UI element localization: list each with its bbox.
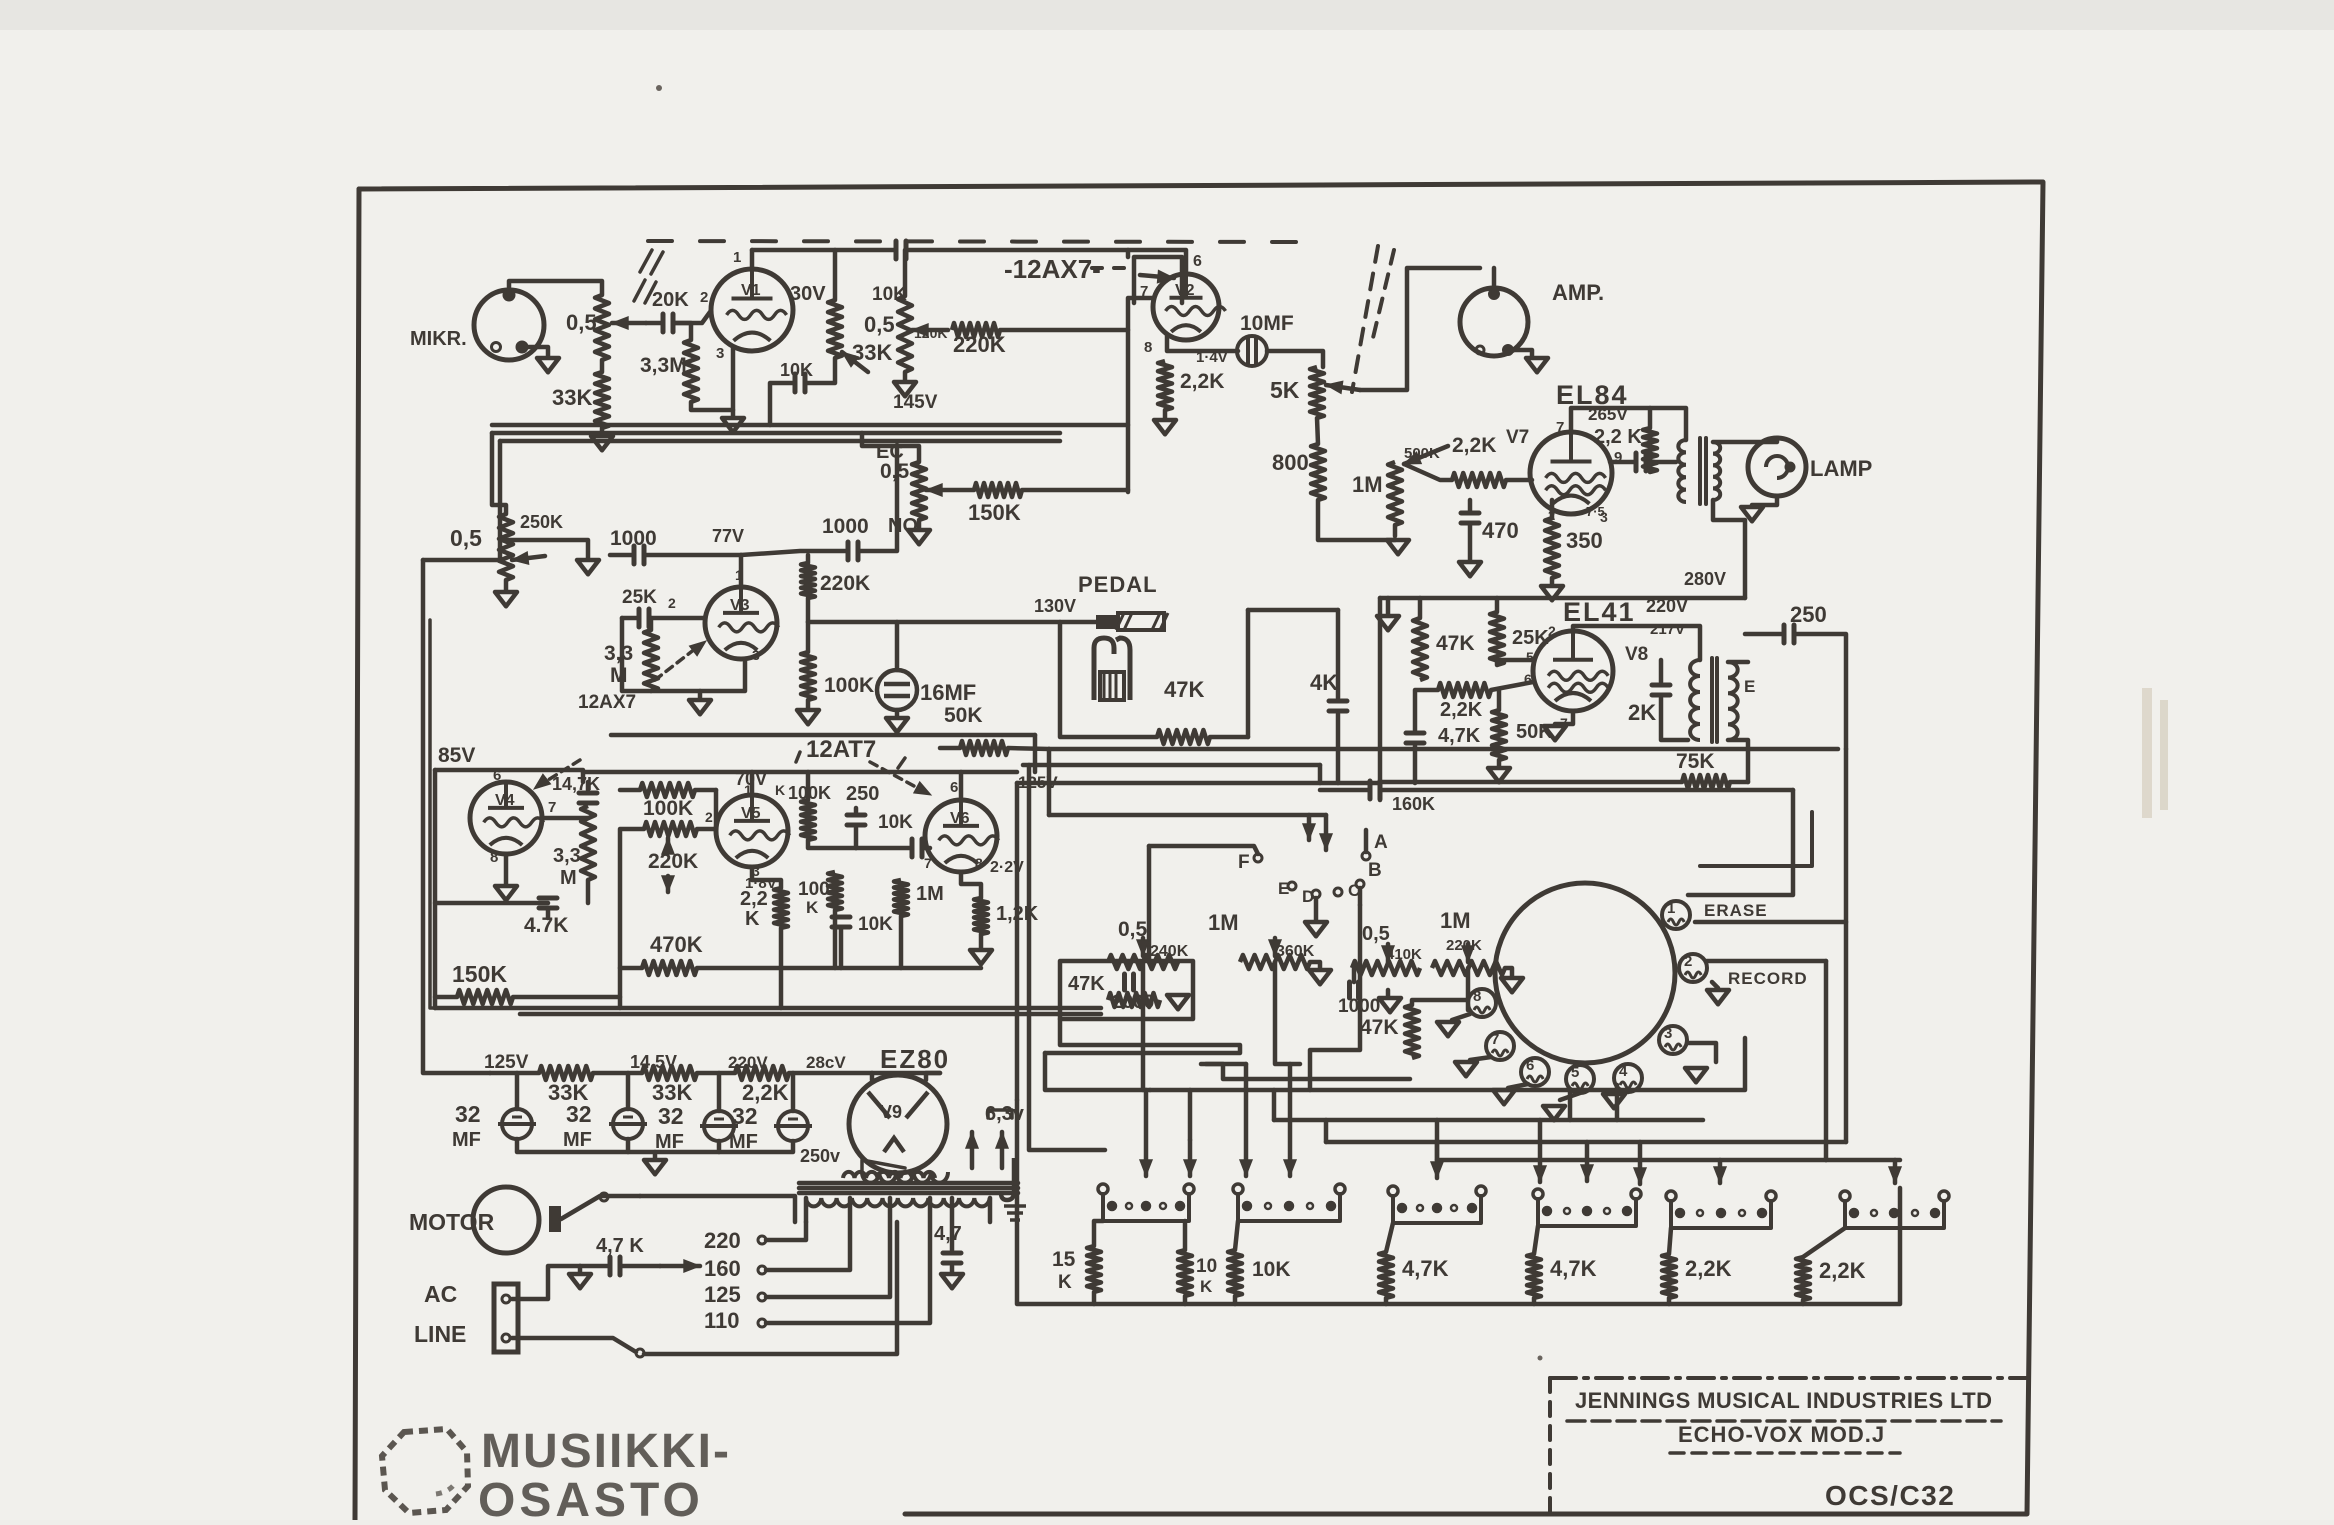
svg-text:K: K <box>1200 1277 1213 1296</box>
svg-text:16MF: 16MF <box>920 680 976 705</box>
svg-text:160K: 160K <box>1392 794 1435 814</box>
svg-text:50K: 50K <box>944 704 983 727</box>
svg-text:12AX7: 12AX7 <box>578 692 636 713</box>
wire: component bottoms to bus <box>779 928 784 1008</box>
wire: 125V resistor row <box>423 560 490 1073</box>
wire: bank bottoms bus <box>1094 1188 1900 1304</box>
ground below V1 <box>722 418 744 432</box>
wire: V5 cathode to 2.2K <box>752 867 781 888</box>
wire: 12AT7 upper bus <box>611 733 1035 738</box>
wire: matrix row3 <box>1274 1118 1703 1123</box>
resistor 47K EL41 <box>1413 618 1427 680</box>
wire: 100K ends <box>620 788 640 793</box>
wire: V1 cathode <box>731 348 736 416</box>
wire: 150K to ground bus <box>513 997 620 1008</box>
ground below V4 <box>495 886 517 900</box>
svg-text:V1: V1 <box>741 282 761 299</box>
svg-text:EL41: EL41 <box>1563 597 1636 627</box>
switch bank S2 <box>1233 1184 1243 1194</box>
wire: record riser down <box>1824 961 1829 1160</box>
ground below 250K pot <box>504 580 509 590</box>
switch bank S4 <box>1533 1189 1543 1199</box>
wire: 3.3M top to grid <box>650 618 651 630</box>
svg-text:85V: 85V <box>438 744 475 767</box>
svg-text:220V: 220V <box>1646 596 1688 616</box>
resistor 33K psu b <box>642 1066 697 1080</box>
transformer T3 primary bumps <box>806 1198 990 1206</box>
svg-text:1000: 1000 <box>822 515 869 538</box>
svg-text:1M: 1M <box>1208 910 1239 935</box>
wire: 150K right to V2 cathode branch <box>1022 488 1128 493</box>
svg-text:3,3M: 3,3M <box>640 354 687 377</box>
svg-text:MUSIIKKI-: MUSIIKKI- <box>481 1425 731 1478</box>
resistor 2.2K psu <box>735 1066 789 1080</box>
svg-text:25K: 25K <box>622 587 657 608</box>
potentiometer 5K <box>1310 367 1324 418</box>
wire: erase return upper <box>1700 812 1812 866</box>
resistor 2.2K V8 <box>1438 683 1491 697</box>
wire: V3 cathode to ground <box>651 659 745 691</box>
svg-text:MIKR.: MIKR. <box>410 328 467 350</box>
wire: 33K top to rail <box>833 250 838 300</box>
pedal lamp hooks <box>1094 638 1114 700</box>
head 2 record <box>1679 954 1707 982</box>
head 4 <box>1614 1064 1642 1092</box>
resistor 3.3M V1 grid leak <box>684 340 698 402</box>
ground below pot2 <box>903 372 908 380</box>
svg-text:6: 6 <box>950 779 958 796</box>
svg-text:32: 32 <box>566 1101 592 1127</box>
ground below 50K <box>1497 760 1502 766</box>
wire: 47K top <box>1418 598 1423 618</box>
arrows on 220K pot <box>666 838 671 850</box>
svg-text:150K: 150K <box>968 500 1021 525</box>
svg-text:220K: 220K <box>953 332 1006 357</box>
switch lever motor <box>561 1196 640 1219</box>
resistor 2.2K V5 cathode <box>774 888 788 928</box>
svg-text:10K: 10K <box>858 914 893 935</box>
svg-text:M: M <box>610 664 628 687</box>
svg-text:K: K <box>806 898 819 917</box>
wire: V2 cathode to 10MF <box>1167 335 1238 351</box>
dashed 12AX7 envelope line <box>648 241 1302 242</box>
svg-text:E: E <box>1744 677 1755 696</box>
svg-text:2,2K: 2,2K <box>742 1080 789 1105</box>
wire: V8 grid <box>1497 660 1533 665</box>
svg-text:8: 8 <box>1144 339 1152 356</box>
svg-text:3,3: 3,3 <box>553 845 581 867</box>
resistor 4.7K a <box>1379 1252 1393 1298</box>
svg-text:110: 110 <box>704 1308 740 1333</box>
resistor 3.3M V4 <box>581 806 595 880</box>
head 7 <box>1486 1032 1514 1060</box>
ground top left EL41 <box>1386 598 1391 614</box>
svg-text:4,7: 4,7 <box>934 1223 962 1245</box>
resistor 47K echo <box>1405 1005 1419 1058</box>
transformer T1 output primary coil <box>1678 440 1686 502</box>
wire: V6 top to rail <box>959 772 964 800</box>
wire: F contact feed <box>1149 846 1258 854</box>
pedal jack plug <box>1096 615 1118 629</box>
wire: mikr pins to ground <box>526 347 548 356</box>
svg-text:PEDAL: PEDAL <box>1078 572 1158 597</box>
svg-text:33K: 33K <box>652 1080 692 1105</box>
svg-text:33K: 33K <box>552 385 592 410</box>
svg-text:1·4V: 1·4V <box>1196 349 1228 366</box>
wire: 5K to 800 <box>1317 418 1318 444</box>
wire: 47K to pedal box right <box>1210 735 1248 740</box>
svg-text:10MF: 10MF <box>1240 312 1294 335</box>
wire: bank tops to resistors <box>1094 1221 1103 1246</box>
wire: 3.3M to grid <box>674 323 691 340</box>
arrow into D <box>1307 815 1312 840</box>
arrow down to pedal switch A <box>1324 815 1329 850</box>
svg-text:100K: 100K <box>643 797 693 820</box>
resistor 75K <box>1682 775 1730 789</box>
wire: bus risers right <box>1844 749 1849 1142</box>
wire: box to bus <box>1045 1019 1240 1053</box>
wire: matrix row1 <box>1045 1053 1150 1090</box>
transformer T3 power core <box>799 1181 1018 1186</box>
wire: AC to transformer right <box>644 1222 897 1354</box>
svg-text:AMP.: AMP. <box>1552 280 1604 305</box>
wire: matrix verticals <box>1188 1090 1193 1140</box>
wire: erase head upper lead <box>1688 790 1793 895</box>
svg-text:2,2 K: 2,2 K <box>1594 426 1642 448</box>
wire: V4 pin7 to 3.3M <box>542 816 588 821</box>
ground below 32MF row <box>653 1152 658 1158</box>
svg-text:6: 6 <box>1193 253 1202 270</box>
svg-text:100: 100 <box>798 879 830 900</box>
potentiometer 1M feedback <box>1388 462 1402 525</box>
transformer T2 secondary <box>1728 662 1738 740</box>
capacitor 4.7K <box>435 901 548 906</box>
svg-text:33K: 33K <box>852 340 892 365</box>
wire: 220K wiper rail <box>620 829 644 997</box>
capacitor 16MF <box>877 670 917 710</box>
svg-text:MOTOR: MOTOR <box>409 1209 495 1235</box>
wire: 50K to L1 <box>940 746 960 751</box>
svg-text:M: M <box>560 867 577 889</box>
wire: mikr top to 0.5 pot <box>509 281 602 295</box>
svg-text:6: 6 <box>493 767 501 784</box>
svg-text:47K: 47K <box>1436 632 1475 655</box>
svg-text:2K: 2K <box>1628 700 1656 725</box>
svg-text:145V: 145V <box>893 392 938 413</box>
svg-text:V6: V6 <box>950 810 970 827</box>
wiper arrow 1M pot <box>1404 446 1448 464</box>
wiper arrow into 0.5 pot <box>612 321 646 326</box>
capacitor 10K bypass <box>832 917 850 927</box>
svg-text:2: 2 <box>668 595 676 611</box>
svg-text:LAMP: LAMP <box>1810 456 1872 481</box>
connector MOTOR <box>473 1187 539 1253</box>
wire: erase head lower lead <box>1695 920 1846 925</box>
svg-text:MF: MF <box>729 1131 758 1153</box>
arrow to 160 tap <box>660 1264 700 1269</box>
ground below 33K <box>600 428 605 434</box>
resistor 10K a <box>1178 1250 1192 1296</box>
svg-text:A: A <box>1374 832 1388 853</box>
wire: record head <box>1707 959 1826 964</box>
tube V7 EL84 <box>1530 432 1612 514</box>
wire: long bus L3 <box>1017 781 1380 786</box>
wire: V1 plate to top line <box>750 250 755 269</box>
wire: V6 cathode <box>961 872 981 898</box>
wire: AC top pin <box>512 1266 580 1299</box>
svg-text:10K: 10K <box>780 360 813 380</box>
wire: cap to V1 grid <box>674 312 710 323</box>
ground left of 1000 cap <box>577 560 599 574</box>
capacitor 32MF 1 <box>515 1073 520 1109</box>
wire: pedal feed riser <box>1248 608 1338 613</box>
svg-text:F: F <box>1238 852 1250 873</box>
wire: EL41 box left <box>1378 598 1383 800</box>
wire: V8 plate top <box>1573 626 1700 660</box>
wire: V7 cathode <box>1550 500 1555 518</box>
svg-text:2: 2 <box>1684 953 1692 970</box>
wire: screen to cap <box>1610 460 1634 465</box>
wiper arrow into EC pot <box>926 488 974 493</box>
ground left of head8 <box>1452 1014 1470 1020</box>
svg-text:4,7K: 4,7K <box>1438 725 1481 747</box>
wire: amp riser <box>1360 268 1480 390</box>
svg-text:10: 10 <box>1196 1256 1217 1277</box>
svg-text:5: 5 <box>1571 1064 1579 1081</box>
resistor 470K <box>642 961 697 975</box>
svg-text:4,7K: 4,7K <box>1550 1256 1597 1281</box>
wire: LAMP bottom to ground <box>1752 496 1777 505</box>
wire: plate rail to V2 callout <box>907 250 1128 257</box>
head 5 <box>1566 1065 1594 1093</box>
wire: 2.2K bottom to transformer <box>1648 462 1653 472</box>
ground below 4.7K motor <box>578 1266 583 1272</box>
svg-text:77V: 77V <box>712 526 744 546</box>
ground below 2.2K <box>1163 410 1168 418</box>
wire: V3 grid loop down <box>622 618 651 691</box>
wire: 25K top <box>1495 598 1500 612</box>
wire: 220K to V2 grid vertical <box>1000 328 1128 333</box>
svg-text:3: 3 <box>716 345 724 362</box>
svg-text:3: 3 <box>752 647 760 663</box>
wire: matrix row5 <box>1437 1158 1900 1163</box>
capacitor 1000 first <box>610 553 632 558</box>
wiper arrow 5K <box>1326 385 1360 390</box>
svg-text:2,2K: 2,2K <box>1685 1256 1732 1281</box>
capacitor 160K on bus <box>1320 788 1368 793</box>
wire: V2 plate top <box>1128 250 1186 274</box>
wire: 220V rail to EL41 box <box>1380 596 1745 601</box>
wire: 1M to 2.2K grid resistor <box>1404 464 1452 480</box>
resistor 100K <box>801 652 815 700</box>
speck marks <box>656 85 662 91</box>
resistor 1M V6 grid <box>894 880 908 916</box>
svg-text:7: 7 <box>1491 1031 1499 1048</box>
resistor 100k V5 plate <box>801 800 815 840</box>
transformer T3 secondary top <box>843 1172 935 1178</box>
svg-text:0,5: 0,5 <box>864 312 895 337</box>
resistor 150K bottom <box>435 995 457 1000</box>
svg-text:350: 350 <box>1566 528 1603 553</box>
wire: bus left verticals down <box>1047 749 1052 815</box>
svg-text:470K: 470K <box>650 932 703 957</box>
svg-text:100K: 100K <box>824 674 874 697</box>
svg-text:32: 32 <box>658 1103 684 1129</box>
svg-text:0,5: 0,5 <box>1362 923 1390 945</box>
capacitor 2000 <box>1125 974 1134 990</box>
transformer T2 core <box>1710 658 1714 742</box>
tube V9 EZ80 <box>849 1075 947 1173</box>
dashed arrow 12AT7 to V6 <box>870 762 925 792</box>
dashed arrow 12AX7 to V3 <box>655 645 700 680</box>
wire: B down <box>1358 888 1363 905</box>
capacitor 4.7K <box>1415 690 1438 730</box>
ground below AMP <box>1526 358 1548 372</box>
wire: EC pot top <box>862 433 919 462</box>
wire: matrix row 1079 <box>1206 1064 1410 1079</box>
svg-text:1M: 1M <box>916 883 944 905</box>
resistor 220K V3 plate <box>801 563 815 598</box>
svg-text:217V: 217V <box>1650 621 1685 638</box>
tube V4 12AT7a <box>470 782 542 854</box>
wire: pot2 top to rail <box>903 250 908 296</box>
heater hook symbol <box>1001 1158 1014 1200</box>
ground below 410K <box>1386 990 1391 996</box>
wire: 100k bottom junction <box>808 840 856 848</box>
heater arrows up <box>970 1132 975 1168</box>
svg-text:K: K <box>775 782 785 798</box>
svg-text:ERASE: ERASE <box>1704 901 1768 920</box>
capacitor 10MF <box>1237 336 1267 366</box>
svg-text:2000: 2000 <box>1112 992 1154 1013</box>
svg-text:1M: 1M <box>1352 472 1383 497</box>
wire: V3 top pin <box>739 555 744 588</box>
resistor 33K below pot <box>595 372 609 428</box>
wire: V4 cathode ground <box>504 854 509 884</box>
svg-text:V2: V2 <box>1175 282 1195 299</box>
svg-text:MF: MF <box>563 1129 592 1151</box>
svg-text:8: 8 <box>490 849 498 866</box>
svg-text:220: 220 <box>704 1228 741 1253</box>
svg-text:V7: V7 <box>1506 427 1529 448</box>
svg-text:2: 2 <box>700 289 708 306</box>
svg-text:V3: V3 <box>730 597 750 614</box>
wire: matrix extra rows <box>1201 1062 1246 1067</box>
wire: V1 plate top rail with cap <box>752 248 895 253</box>
tube V6 12AT7 second half <box>925 800 997 872</box>
svg-text:15: 15 <box>1052 1248 1076 1271</box>
resistor 3.3M V3 <box>644 630 658 691</box>
svg-text:360K: 360K <box>1276 943 1315 960</box>
wire: 50K top <box>1497 690 1502 710</box>
svg-text:7·5: 7·5 <box>1586 504 1605 519</box>
resistor 2.2K a <box>1662 1254 1676 1298</box>
ground below 220K <box>1505 968 1512 976</box>
wire: D to ground <box>1314 898 1319 920</box>
wire: 3.3M bottom rail <box>586 880 591 903</box>
wire: long bus L2 <box>1023 763 1320 768</box>
svg-text:4K: 4K <box>1310 670 1338 695</box>
svg-text:MF: MF <box>452 1129 481 1151</box>
wire: primary ends <box>804 1198 809 1222</box>
wire: head4 <box>1616 1090 1628 1095</box>
wire: bus lines 145V area <box>492 423 1128 428</box>
V9 heater coil <box>862 1172 948 1183</box>
svg-text:0,5: 0,5 <box>450 525 482 551</box>
svg-text:4: 4 <box>1619 1063 1628 1080</box>
wire: 32MF bottoms <box>517 1139 793 1152</box>
wire: 250K pot top <box>492 433 506 514</box>
connector LAMP <box>1748 438 1806 496</box>
ground below 4.7 <box>941 1274 963 1288</box>
wire: head6 <box>1508 1084 1528 1088</box>
switch bank S6 <box>1840 1191 1850 1201</box>
svg-text:AC: AC <box>424 1281 457 1307</box>
svg-text:V8: V8 <box>1625 644 1648 665</box>
capacitor 32MF 2 <box>626 1073 631 1109</box>
head 8 <box>1468 989 1496 1017</box>
wire: left border <box>355 189 359 1520</box>
switch bank S5 <box>1666 1191 1676 1201</box>
dash marks on envelope <box>640 250 652 272</box>
capacitor 10K feedback <box>806 358 835 383</box>
transformer T1 secondary coil <box>1713 442 1720 500</box>
svg-text:2,2K: 2,2K <box>1440 699 1483 721</box>
svg-text:4,7 K: 4,7 K <box>596 1235 644 1257</box>
svg-text:K: K <box>1058 1272 1072 1293</box>
resistor 47K pedal <box>1157 730 1210 744</box>
capacitor 32MF 3 <box>717 1073 722 1111</box>
head 1 erase <box>1662 901 1690 929</box>
potentiometer 0.5 (mic level) <box>595 295 609 360</box>
dashed crease lines <box>1352 246 1378 392</box>
svg-text:6,3v: 6,3v <box>985 1103 1025 1125</box>
svg-text:125V: 125V <box>484 1052 529 1073</box>
box 47K 2000 network <box>1060 961 1193 1019</box>
wire: pot junction <box>600 360 605 372</box>
resistor 2.2K screen <box>1643 428 1657 472</box>
svg-text:12AT7: 12AT7 <box>806 736 876 763</box>
wire: 10MF to 5K pot <box>1267 351 1323 367</box>
wire: pots to matrix <box>1141 962 1146 1090</box>
svg-text:1M: 1M <box>1440 908 1471 933</box>
arrows into banks <box>1144 1090 1149 1176</box>
svg-text:32: 32 <box>455 1101 481 1127</box>
resistor 100K mid <box>828 872 842 910</box>
connector AC LINE plug <box>494 1284 518 1352</box>
transformer T2 echo primary <box>1690 660 1700 740</box>
connector MIKR <box>474 290 544 360</box>
ground below 100K <box>806 700 811 708</box>
svg-text:470: 470 <box>1482 518 1519 543</box>
head 6 <box>1521 1058 1549 1086</box>
annotation arrow to V4 <box>540 760 580 785</box>
ground below 350 <box>1550 578 1555 584</box>
svg-text:10K: 10K <box>878 812 913 833</box>
resistor 2.2K b <box>1796 1257 1810 1300</box>
svg-text:1: 1 <box>735 567 743 583</box>
svg-text:47K: 47K <box>1164 677 1204 702</box>
ground below 16MF <box>895 710 900 716</box>
wire: V2 pin7 vertical <box>1128 298 1154 492</box>
resistor 1.2K V6 cathode <box>974 898 988 934</box>
wire: V8 cathode ground <box>1555 711 1573 724</box>
ground right of 2000 <box>1167 995 1189 1009</box>
wire: bus to 1000 cap row <box>500 540 588 558</box>
wire: 130V pedal rail <box>808 620 1096 625</box>
svg-text:800: 800 <box>1272 450 1309 475</box>
svg-text:7: 7 <box>548 799 556 816</box>
